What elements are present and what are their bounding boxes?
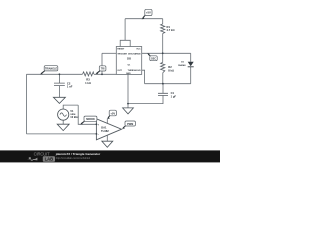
svg-text:1N4148: 1N4148 [178, 64, 186, 67]
capacitor C2 plates [54, 83, 65, 86]
ground below op-amp [102, 141, 113, 147]
diode D1 [188, 62, 194, 67]
node R1/R2/DISCH junction [162, 52, 164, 54]
wire +5V top rail [125, 18, 163, 20]
CircuitLab logo [27, 151, 55, 161]
flag OSC (DISCH node) [147, 53, 157, 60]
svg-text:TRIGGER: TRIGGER [117, 53, 127, 55]
svg-text:1 µF: 1 µF [171, 94, 177, 98]
svg-text:8 kΩ: 8 kΩ [168, 68, 174, 72]
capacitor C1 plates [158, 93, 168, 95]
wire op-amp V+ stub [106, 119, 108, 124]
node triangle/C2 junction [59, 73, 61, 75]
wire TRIGGER down to triangle node [101, 53, 103, 74]
junction dots [59, 52, 164, 134]
wire threshold rail [145, 83, 191, 85]
wire R2 top [162, 53, 164, 62]
svg-text:4.7 kΩ: 4.7 kΩ [167, 28, 175, 32]
flag MODIN [80, 116, 97, 124]
svg-text:PWM: PWM [127, 123, 133, 126]
wire V1 bottom [62, 120, 64, 124]
wire triangle node horizontal left segment [27, 73, 83, 75]
svg-text:VCC: VCC [136, 49, 141, 51]
IC U1 555 box [116, 47, 141, 75]
wire R1 bottom to DISCH rail [162, 34, 164, 54]
ground below C2 [53, 97, 65, 103]
svg-text:1 nF: 1 nF [67, 85, 73, 89]
component value labels [67, 25, 186, 98]
svg-text:jdennis72 / Triangle Generator: jdennis72 / Triangle Generator [55, 152, 101, 156]
svg-text:TL082: TL082 [101, 129, 109, 133]
flag +5V top [142, 9, 152, 19]
wire THRESHOLD pin [142, 70, 145, 84]
wire C2 stem top [58, 74, 60, 83]
wire R2 bottom [162, 73, 164, 84]
svg-text:TRI: TRI [101, 69, 105, 71]
resistor R2 [161, 62, 165, 72]
wire D1 anode [190, 53, 192, 62]
voltage source V1 [58, 109, 69, 120]
wire triangle node horizontal right segment [94, 73, 117, 75]
svg-text:D1: D1 [181, 61, 185, 63]
svg-text:GND: GND [126, 73, 131, 75]
wire V1 to op-amp noninverting input [78, 105, 96, 124]
node R2/C1/THRES junction [162, 83, 164, 85]
resistor R1 [161, 24, 165, 34]
wire DISCHARGE pin rail [142, 52, 191, 54]
wire D1 cathode [190, 67, 192, 84]
svg-text:OUT: OUT [117, 70, 122, 72]
flag RAMP (TRIG node) [95, 66, 106, 74]
wire left loop vertical [26, 74, 28, 134]
ground below 555 [123, 108, 134, 114]
svg-text:10 kHz: 10 kHz [70, 115, 79, 119]
flag TRIANGLE [40, 66, 58, 75]
footer bar [0, 150, 220, 162]
svg-text:http://circuitlab.com/cmc3dmk2: http://circuitlab.com/cmc3dmk2 [56, 157, 91, 160]
wire C1 bottom to ground rail [128, 96, 163, 104]
svg-text:MODIN: MODIN [86, 118, 95, 121]
resistor R3 [83, 72, 94, 76]
op-amp OA1 [96, 119, 121, 140]
wire VCC/RESET bracket [120, 40, 130, 46]
svg-text:+5V: +5V [110, 111, 115, 115]
wire C1 top [162, 84, 164, 94]
node TRIG junction [101, 73, 103, 75]
wire left loop bottom to op-amp inverting input [27, 133, 97, 135]
wire top rail to R1 [162, 19, 164, 24]
wire V1 top [63, 105, 78, 109]
wire 555 GND pin [127, 74, 129, 108]
svg-text:555: 555 [127, 58, 132, 61]
wire op-amp V- stub [106, 135, 108, 141]
svg-text:OSC: OSC [151, 58, 156, 60]
svg-text:LAB: LAB [45, 157, 54, 162]
node op-amp -in junction [96, 133, 98, 135]
flag PWM [122, 121, 136, 129]
svg-text:RESET: RESET [117, 49, 125, 51]
node op-amp +in junction [96, 123, 98, 125]
flag +5V op-amp [107, 110, 116, 119]
svg-text:DISCHARGE: DISCHARGE [128, 52, 141, 55]
svg-text:1 kΩ: 1 kΩ [85, 81, 91, 85]
node GND rail junction [127, 103, 129, 105]
svg-text:+5V: +5V [146, 11, 151, 15]
wire C2 stem bottom [58, 86, 60, 98]
wire TRIGGER pin [102, 52, 116, 54]
svg-text:TRIANGLE: TRIANGLE [45, 68, 58, 71]
svg-text:CIRCUIT: CIRCUIT [34, 151, 51, 156]
svg-text:THRESHOLD: THRESHOLD [128, 70, 141, 72]
wire VCC bracket stem [124, 19, 126, 41]
ground below V1 [57, 124, 69, 130]
